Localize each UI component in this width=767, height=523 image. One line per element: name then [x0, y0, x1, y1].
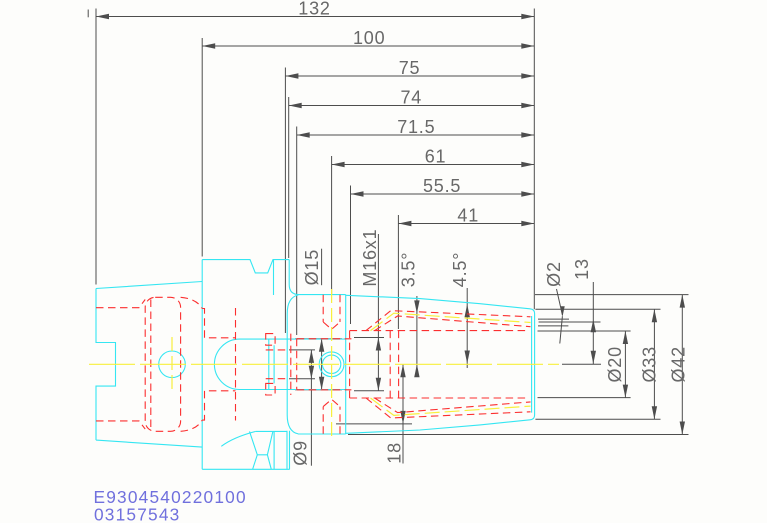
- arrow left 55.5: [351, 191, 364, 196]
- svg-text:4.5°: 4.5°: [450, 252, 470, 287]
- arrow left 132: [96, 14, 109, 19]
- shared right extension line: [533, 9, 535, 310]
- dimension line 74: [289, 105, 535, 107]
- arrow d20 bottom: [623, 385, 628, 398]
- drive slot pocket hidden outline: [145, 297, 180, 431]
- pilot bore d15 hidden lines: [297, 339, 352, 390]
- extension d33 top: [535, 308, 660, 310]
- dimension line 61: [332, 164, 535, 166]
- flange inner face hidden line: [235, 308, 237, 421]
- arrow 3.5 upper: [414, 300, 419, 313]
- svg-text:Ø2: Ø2: [544, 261, 564, 287]
- thread bore hidden lines: [350, 331, 528, 398]
- collet seat taper lower: [366, 398, 531, 418]
- extension d42 bottom: [348, 434, 689, 436]
- svg-text:55.5: 55.5: [423, 176, 461, 196]
- svg-text:Ø15: Ø15: [302, 249, 322, 285]
- coolant tube bore hidden lines: [266, 350, 289, 379]
- thread end faces hidden: [390, 331, 398, 398]
- tube collar hidden rect top: [266, 334, 275, 346]
- svg-text:100: 100: [353, 28, 385, 48]
- arrow right 71.5: [521, 132, 534, 137]
- collet slot centerline lower: [371, 398, 531, 415]
- arrow 13 top: [591, 319, 596, 332]
- arrow 18 top: [400, 364, 405, 377]
- extension line 100 left: [201, 38, 203, 257]
- chuck body face and fillet: [287, 260, 299, 434]
- arrow right 74: [521, 103, 534, 108]
- arrow 18 bottom: [400, 411, 405, 424]
- arrow 4.5 upper: [465, 304, 470, 317]
- arrow 3.5 lower: [414, 364, 419, 377]
- dim line d20: [624, 331, 626, 398]
- collet slot centerline upper: [371, 313, 531, 330]
- extension d15 top: [295, 338, 342, 340]
- extension M16 bottom: [354, 390, 384, 392]
- extension 18: [336, 423, 412, 425]
- slot to flange arcs: [181, 297, 203, 431]
- hole top line: [538, 318, 569, 320]
- arrow left 74: [289, 103, 302, 108]
- leader angle 4.5: [466, 288, 468, 368]
- arrow d9 top: [309, 350, 314, 363]
- dimension line 100: [202, 45, 534, 47]
- dim line M16: [377, 234, 379, 391]
- extension d42 top: [535, 294, 689, 296]
- arrow right 132: [521, 14, 534, 19]
- svg-text:Ø42: Ø42: [669, 346, 689, 382]
- svg-text:03157543: 03157543: [94, 504, 181, 523]
- dimension line 132: [96, 16, 534, 18]
- dim line 13: [592, 282, 594, 364]
- main centerline: [89, 363, 559, 365]
- svg-text:13: 13: [572, 258, 592, 280]
- svg-text:Ø20: Ø20: [605, 346, 625, 382]
- arrow right 61: [521, 162, 534, 167]
- flange groove floor curve: [221, 431, 256, 446]
- dimension line 41: [398, 223, 534, 225]
- arrow left 71.5: [297, 132, 310, 137]
- arrow right 41: [521, 221, 534, 226]
- arrow left 75: [285, 73, 298, 78]
- arrow 4.5 lower: [465, 351, 470, 364]
- arrow left 61: [332, 162, 345, 167]
- extension line 61 left: [331, 156, 333, 295]
- svg-text:41: 41: [457, 206, 479, 226]
- flange outline bottom: [202, 431, 290, 470]
- arrow 13 bottom: [591, 351, 596, 364]
- dim line d9: [310, 350, 312, 466]
- shank taper outline: [96, 282, 202, 448]
- arrow d42 top: [680, 295, 685, 308]
- dimension line 75: [285, 75, 534, 77]
- hole bottom line: [538, 325, 568, 327]
- flange outline top: [202, 260, 289, 470]
- arrow right 100: [521, 43, 534, 48]
- extension M16 top: [354, 337, 384, 339]
- svg-text:M16x1: M16x1: [360, 229, 380, 287]
- dimension line 55.5: [351, 193, 535, 195]
- svg-text:18: 18: [384, 442, 404, 464]
- arrow d15 top: [319, 339, 324, 352]
- arrow d2: [561, 306, 565, 316]
- arrow left 100: [202, 43, 215, 48]
- arrow d9 bottom: [309, 366, 314, 379]
- arrow d42 bottom: [680, 422, 685, 435]
- dim line d15 lower: [321, 339, 323, 390]
- extension line 75 left: [284, 68, 286, 334]
- tube hidden face line: [290, 334, 292, 395]
- arrow d15 bottom: [319, 377, 324, 390]
- arrow d33 bottom: [652, 406, 657, 419]
- extension line 41 left: [397, 215, 399, 329]
- extension line 74 left: [288, 97, 290, 258]
- arrow right 75: [521, 73, 534, 78]
- bottom radial hole pocket: [323, 399, 340, 434]
- svg-text:74: 74: [401, 88, 423, 108]
- svg-text:Ø33: Ø33: [640, 346, 660, 382]
- shank side hole circle: [0, 0, 1, 1]
- nose cone outline: [346, 295, 535, 433]
- dim line 18: [402, 364, 404, 463]
- svg-text:132: 132: [298, 0, 330, 19]
- radial hole centerline: [331, 289, 333, 440]
- extension line 55.5 left: [350, 186, 352, 325]
- tube collar hidden rect bottom: [266, 383, 275, 395]
- top radial hole pocket: [323, 295, 340, 330]
- arrow M16 bottom: [376, 378, 381, 391]
- arrow right 55.5: [521, 191, 534, 196]
- extension d9 top: [289, 349, 315, 351]
- dimension line 71.5: [297, 134, 535, 136]
- arrow d33 top: [652, 309, 657, 322]
- coolant tube bullet: [214, 339, 345, 389]
- dim line d42: [681, 295, 683, 435]
- leader angle 3.5: [416, 296, 418, 372]
- extension d20 bottom: [538, 397, 631, 399]
- extension line 132 left: [95, 9, 97, 285]
- dim line d15 upper: [321, 249, 323, 286]
- shank hole centerline: [171, 337, 173, 392]
- centerline extension right: [562, 363, 601, 365]
- svg-text:75: 75: [399, 58, 421, 78]
- svg-text:Ø9: Ø9: [291, 440, 311, 466]
- leader d2: [557, 289, 563, 316]
- svg-text:61: 61: [425, 147, 447, 167]
- arrow left 41: [398, 221, 411, 226]
- extension d20 top: [538, 330, 631, 332]
- shank bore hidden lines: [96, 300, 145, 430]
- extension d9 bottom: [289, 378, 315, 380]
- left tick mark: [87, 10, 89, 18]
- flange bore hidden lines: [202, 309, 235, 421]
- hole center line: [539, 321, 601, 323]
- radial hole circles: [0, 0, 1, 1]
- svg-text:3.5°: 3.5°: [399, 252, 419, 287]
- drive slot inner edge: [150, 300, 152, 430]
- arrow d20 top: [623, 331, 628, 344]
- body cylinder edges: [298, 295, 346, 434]
- svg-text:71.5: 71.5: [397, 117, 435, 137]
- collet seat taper upper: [366, 311, 531, 331]
- extension d33 bottom: [535, 418, 660, 420]
- leader d2 tail: [560, 316, 563, 343]
- extension line 71.5 left: [296, 127, 298, 336]
- dim line d33: [653, 309, 655, 419]
- arrow M16 top: [376, 338, 381, 351]
- extension d15 bottom: [295, 389, 342, 391]
